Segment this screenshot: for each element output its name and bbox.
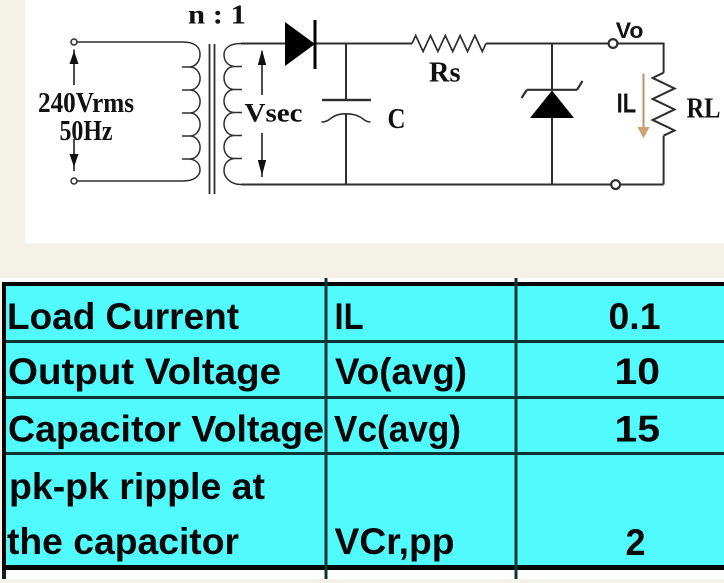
svg-text:Rs: Rs [429,58,461,89]
svg-text:10: 10 [615,351,661,392]
svg-text:Vo(avg): Vo(avg) [335,351,467,392]
svg-text:0.1: 0.1 [609,296,661,337]
svg-text:15: 15 [615,409,661,450]
svg-text:Vo: Vo [616,18,644,43]
svg-text:240Vrms: 240Vrms [38,88,134,119]
svg-text:Vc(avg): Vc(avg) [334,409,461,450]
svg-text:the capacitor: the capacitor [7,521,239,562]
svg-text:n : 1: n : 1 [188,0,246,30]
svg-text:2: 2 [626,522,646,563]
svg-text:50Hz: 50Hz [60,116,113,147]
svg-text:RL: RL [687,94,721,125]
svg-text:IL: IL [617,88,637,119]
svg-text:C: C [388,103,406,135]
svg-text:Load Current: Load Current [7,296,239,337]
svg-text:IL: IL [335,296,364,337]
svg-text:Capacitor Voltage: Capacitor Voltage [8,409,324,450]
svg-text:Output Voltage: Output Voltage [8,351,281,392]
svg-text:pk-pk ripple at: pk-pk ripple at [9,466,265,507]
svg-text:Vsec: Vsec [245,99,303,128]
svg-text:VCr,pp: VCr,pp [335,521,455,562]
